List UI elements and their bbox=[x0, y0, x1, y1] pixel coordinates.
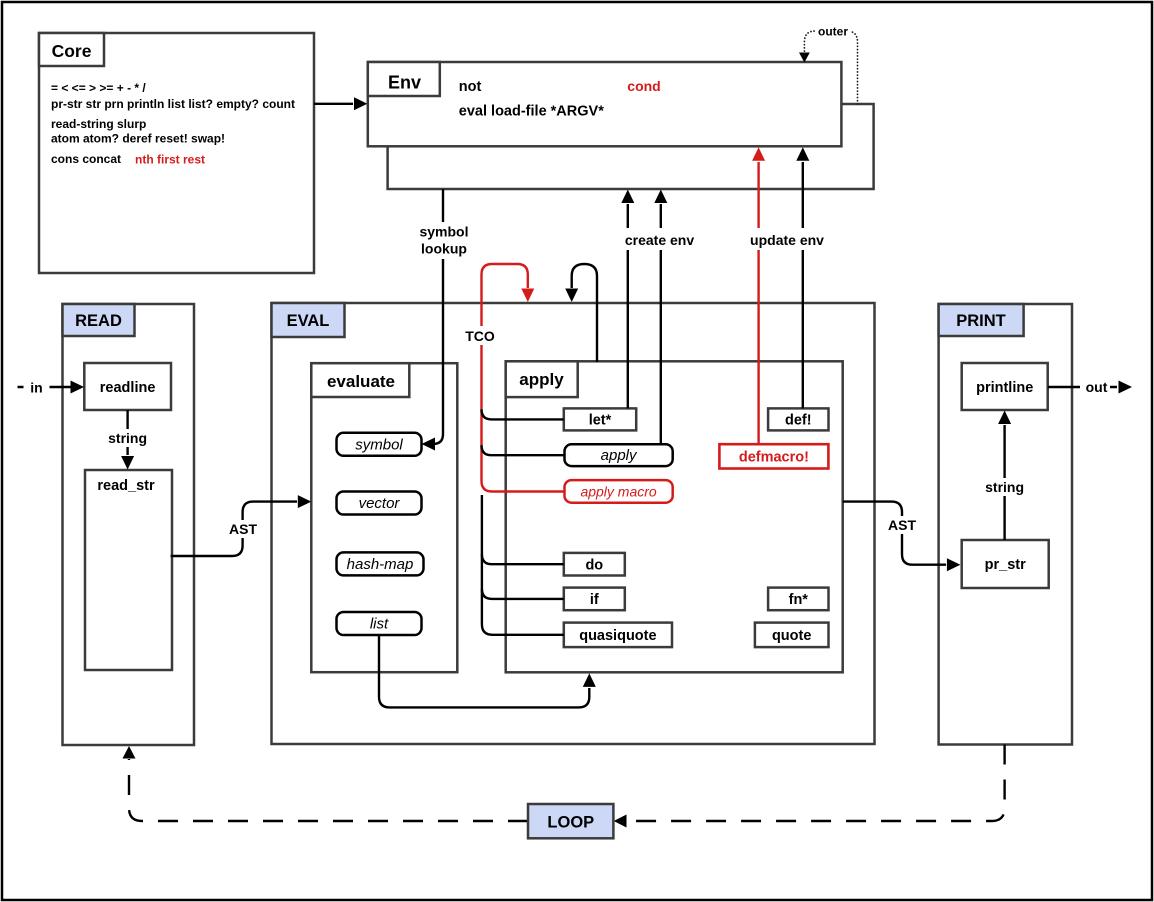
wire Core to Env bbox=[314, 103, 353, 105]
svg-text:symbol: symbol bbox=[355, 436, 403, 453]
label outer bbox=[816, 24, 851, 38]
wire TCO black loop bbox=[572, 264, 597, 362]
svg-text:update env: update env bbox=[750, 232, 824, 248]
node let* bbox=[564, 408, 636, 430]
label AST right bbox=[886, 516, 918, 534]
svg-text:Core: Core bbox=[52, 41, 92, 61]
wire create env 1 (from let*) bbox=[627, 204, 629, 408]
wire update env red (from defmacro!) bbox=[757, 162, 759, 444]
label string (read) bbox=[105, 429, 150, 447]
svg-text:LOOP: LOOP bbox=[547, 813, 594, 831]
wire dashed print to loop bbox=[627, 745, 1005, 822]
box Core bbox=[39, 33, 314, 273]
node quote bbox=[755, 623, 829, 648]
svg-text:let*: let* bbox=[589, 413, 612, 429]
svg-text:hash-map: hash-map bbox=[347, 556, 414, 573]
box evaluate container bbox=[311, 363, 457, 672]
svg-text:apply: apply bbox=[601, 447, 638, 464]
label string (print) bbox=[982, 478, 1027, 496]
svg-text:readline: readline bbox=[100, 380, 156, 396]
svg-text:cons concat: cons concat bbox=[51, 152, 121, 166]
svg-text:string: string bbox=[108, 430, 147, 446]
node defmacro! bbox=[719, 444, 828, 468]
svg-text:pr-str str prn println list li: pr-str str prn println list list? empty?… bbox=[51, 97, 295, 111]
wire dashed loop to read bbox=[129, 759, 528, 821]
wire AST right bbox=[843, 502, 946, 565]
wire branch to if bbox=[482, 589, 564, 599]
wire out arrow bbox=[1048, 386, 1117, 388]
wire AST left bbox=[171, 502, 297, 556]
box apply container bbox=[506, 361, 843, 672]
svg-text:defmacro!: defmacro! bbox=[739, 450, 809, 466]
svg-text:AST: AST bbox=[229, 521, 257, 537]
wire branch to apply bbox=[482, 445, 565, 455]
wire TCO red loop and trunk bbox=[482, 264, 565, 492]
svg-text:cond: cond bbox=[627, 78, 660, 94]
label update env bbox=[745, 228, 829, 250]
svg-text:list: list bbox=[370, 616, 389, 633]
svg-text:in: in bbox=[30, 379, 42, 395]
svg-text:not: not bbox=[459, 79, 482, 95]
svg-text:pr_str: pr_str bbox=[985, 557, 1026, 573]
node def! bbox=[768, 408, 828, 430]
svg-text:string: string bbox=[985, 479, 1024, 495]
box Env outer (back) bbox=[388, 104, 874, 189]
node apply macro bbox=[565, 480, 673, 503]
svg-text:outer: outer bbox=[818, 25, 848, 39]
svg-text:EVAL: EVAL bbox=[287, 312, 330, 330]
node fn* bbox=[768, 588, 828, 611]
svg-text:if: if bbox=[590, 592, 599, 608]
wire trunk black lower bbox=[482, 495, 564, 635]
svg-text:symbol: symbol bbox=[419, 224, 468, 240]
node pr_str bbox=[962, 540, 1049, 588]
box LOOP bbox=[528, 804, 613, 838]
node do bbox=[564, 553, 625, 576]
svg-text:vector: vector bbox=[359, 495, 401, 512]
node readline bbox=[84, 363, 171, 410]
label in bbox=[24, 378, 50, 396]
wire branch to do bbox=[482, 554, 564, 564]
node quasiquote bbox=[564, 623, 672, 648]
node apply (inner) bbox=[565, 444, 673, 466]
svg-text:= < <= > >= + - * /: = < <= > >= + - * / bbox=[51, 81, 146, 95]
svg-text:create env: create env bbox=[625, 232, 694, 248]
node printline bbox=[962, 363, 1048, 410]
svg-text:atom atom? deref reset! swap!: atom atom? deref reset! swap! bbox=[51, 131, 225, 145]
svg-text:apply macro: apply macro bbox=[580, 483, 656, 499]
label AST left bbox=[227, 520, 259, 538]
box PRINT container bbox=[939, 304, 1072, 745]
box EVAL container bbox=[272, 303, 875, 744]
svg-text:read_str: read_str bbox=[97, 478, 155, 494]
wire update env black (from def!) bbox=[802, 162, 804, 408]
box READ container bbox=[63, 304, 195, 745]
label TCO bbox=[462, 326, 499, 345]
label out bbox=[1080, 378, 1110, 396]
svg-text:read-string slurp: read-string slurp bbox=[51, 117, 146, 131]
svg-text:quote: quote bbox=[772, 628, 811, 644]
svg-text:def!: def! bbox=[785, 413, 812, 429]
svg-text:READ: READ bbox=[75, 312, 122, 330]
svg-text:TCO: TCO bbox=[465, 328, 495, 344]
svg-text:AST: AST bbox=[888, 517, 916, 533]
wire string arrow (print) bbox=[1003, 425, 1005, 540]
svg-text:apply: apply bbox=[519, 370, 564, 389]
box Env (front) bbox=[368, 62, 842, 146]
svg-text:quasiquote: quasiquote bbox=[579, 628, 656, 644]
svg-text:eval load-file *ARGV*: eval load-file *ARGV* bbox=[459, 104, 604, 120]
node vector bbox=[337, 492, 422, 515]
wire string arrow (read) bbox=[126, 410, 128, 455]
svg-text:Env: Env bbox=[388, 72, 421, 92]
svg-text:fn*: fn* bbox=[789, 592, 809, 608]
svg-text:nth first rest: nth first rest bbox=[135, 153, 205, 167]
node list bbox=[337, 612, 422, 635]
node hash-map bbox=[337, 552, 424, 575]
svg-text:do: do bbox=[585, 557, 603, 573]
node read_str bbox=[85, 470, 172, 670]
node symbol bbox=[337, 433, 422, 456]
svg-text:out: out bbox=[1086, 379, 1108, 395]
svg-text:printline: printline bbox=[976, 380, 1033, 396]
svg-text:PRINT: PRINT bbox=[956, 312, 1006, 330]
wire symbol lookup bbox=[433, 189, 444, 444]
label symbol lookup bbox=[415, 222, 473, 259]
wire outer dotted loop bbox=[804, 31, 857, 104]
wire create env 2 (from apply) bbox=[660, 204, 662, 444]
wire branch to let* bbox=[482, 409, 564, 419]
wire in arrow bbox=[18, 386, 71, 388]
node if bbox=[564, 588, 625, 611]
svg-text:evaluate: evaluate bbox=[327, 372, 395, 391]
wire list to apply container bbox=[379, 635, 589, 707]
svg-text:lookup: lookup bbox=[421, 241, 467, 257]
label create env bbox=[619, 228, 699, 250]
